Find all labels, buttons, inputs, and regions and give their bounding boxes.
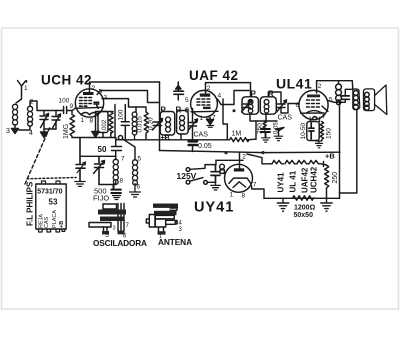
IF1 primary box bbox=[160, 112, 175, 136]
svg-text:UAF 42: UAF 42 bbox=[189, 68, 239, 83]
UAF42 diode bar bbox=[203, 107, 211, 109]
tuning capacitor VC1 bbox=[40, 111, 48, 130]
ant former body bbox=[155, 219, 165, 227]
UY41 filament bbox=[233, 182, 246, 188]
ground arrow below primary bbox=[12, 125, 19, 134]
block bottom tabs bbox=[39, 229, 65, 232]
svg-text:1: 1 bbox=[24, 85, 28, 92]
IF2 trimmer right bbox=[278, 104, 286, 108]
switch wire bbox=[207, 181, 215, 183]
svg-text:UY41: UY41 bbox=[277, 172, 286, 193]
IF1 trimmer left bbox=[154, 122, 162, 126]
svg-text:1MG: 1MG bbox=[63, 124, 70, 139]
coil bottom bar bbox=[99, 182, 116, 185]
switch lever bbox=[190, 178, 203, 182]
svg-text:50: 50 bbox=[98, 145, 107, 154]
ground right bottom bbox=[321, 198, 332, 211]
svg-text:4: 4 bbox=[218, 93, 222, 100]
osc trimmer arrow bbox=[94, 161, 105, 174]
anode top line to IF1 bbox=[91, 81, 160, 83]
resistor 0.20 drop bbox=[136, 107, 148, 140]
tuning capacitor VC2 bbox=[52, 111, 60, 130]
IF2 secondary coil bbox=[264, 100, 269, 113]
junction dot 1M riser bbox=[224, 151, 227, 154]
svg-text:53: 53 bbox=[49, 198, 58, 207]
grid trimmer top stub bbox=[192, 109, 194, 123]
bottom bus bbox=[264, 197, 340, 199]
RC bottoms to bus bbox=[103, 133, 111, 138]
osc coil L3 bbox=[132, 160, 137, 185]
cathode resistor 150 bbox=[320, 122, 323, 141]
gang dashed line steep bbox=[25, 127, 50, 184]
UY41 anode bar bbox=[234, 168, 244, 171]
svg-text:10-50: 10-50 bbox=[300, 122, 307, 139]
wire to UL41 grid bbox=[281, 104, 299, 114]
svg-text:UL41: UL41 bbox=[276, 76, 312, 92]
vertical feed x159.5 bbox=[159, 82, 161, 151]
pin8 wire to ground bbox=[95, 112, 97, 132]
pin5 wire bbox=[328, 101, 341, 103]
junction dot pin4 riser bbox=[233, 109, 236, 112]
IF2 bottoms bar bbox=[250, 114, 277, 121]
bus wire y137.5 bbox=[72, 138, 230, 140]
pin7 wire to bus bbox=[252, 186, 265, 199]
secondary coil bbox=[353, 91, 358, 110]
resistor 250 right bbox=[325, 165, 329, 198]
svg-text:7: 7 bbox=[121, 156, 125, 163]
osc former flange 2 bbox=[100, 217, 125, 222]
UL41 grid chord bbox=[301, 112, 325, 114]
cathode ground bbox=[316, 141, 323, 148]
pin 3 stub bbox=[102, 98, 107, 100]
svg-text:2: 2 bbox=[318, 83, 322, 90]
svg-text:8: 8 bbox=[90, 118, 94, 125]
svg-text:ANTENA: ANTENA bbox=[158, 237, 192, 247]
svg-text:P: P bbox=[161, 106, 167, 115]
UAF42 anode line bbox=[206, 83, 251, 97]
diagonal to coil2 bbox=[122, 139, 135, 160]
junction loop on bus bbox=[118, 136, 122, 140]
resistor 1MG vertical bbox=[70, 111, 75, 138]
ground under det cap bbox=[262, 138, 270, 142]
resistor 1200 bbox=[293, 196, 314, 200]
ground left bottom bbox=[277, 198, 288, 211]
IF1 secondary coil bbox=[180, 116, 185, 131]
block top tabs bbox=[42, 181, 61, 184]
UCH42 anode bar bbox=[83, 92, 94, 95]
heater UL41 bbox=[285, 160, 297, 163]
coil L3 ground bbox=[130, 184, 141, 198]
IF2 trimmer left bbox=[243, 104, 251, 108]
antenna Y1 bbox=[18, 81, 27, 96]
grid cap 5 plates bbox=[174, 91, 184, 94]
tone cap bottom stub bbox=[340, 99, 346, 102]
speaker horn bbox=[375, 85, 387, 115]
IF1 primary coil bbox=[166, 117, 171, 132]
UAF42 ground bars bbox=[207, 126, 214, 128]
osc former flange 1 bbox=[98, 210, 126, 215]
B+ vertical right bbox=[339, 102, 341, 193]
svg-text:3: 3 bbox=[113, 226, 116, 232]
UY41 tube envelope bbox=[225, 164, 253, 192]
svg-text:UCH 42: UCH 42 bbox=[41, 73, 92, 88]
svg-text:0.015: 0.015 bbox=[137, 116, 144, 133]
svg-text:1: 1 bbox=[200, 115, 204, 122]
svg-text:UAF42: UAF42 bbox=[301, 167, 310, 193]
mains terminal top bbox=[186, 168, 190, 172]
svg-text:8: 8 bbox=[120, 178, 124, 185]
250 branch vertical bbox=[255, 121, 257, 139]
resistor beside .002 bbox=[109, 112, 113, 134]
svg-text:1: 1 bbox=[81, 117, 85, 124]
svg-text:3: 3 bbox=[6, 128, 10, 135]
svg-text:5: 5 bbox=[185, 97, 189, 104]
ground arrow below VC1 bbox=[41, 129, 48, 138]
antenna coil primary winding bbox=[12, 104, 17, 125]
stub to bottom bus bbox=[339, 193, 341, 198]
1M riser bbox=[223, 99, 227, 140]
cathode cap bbox=[309, 123, 314, 139]
filter cap 0.1 bbox=[211, 165, 220, 183]
IF1 trimmer left arrow bbox=[153, 119, 163, 131]
svg-text:5731/70: 5731/70 bbox=[37, 189, 62, 196]
ant former tab right bbox=[170, 208, 177, 210]
svg-text:7: 7 bbox=[322, 114, 326, 121]
svg-text:2: 2 bbox=[207, 85, 211, 92]
svg-text:+B: +B bbox=[325, 152, 335, 161]
UL41 anode bar bbox=[307, 95, 320, 98]
heater UCH42 bbox=[309, 160, 321, 163]
UAF42 grid chord bbox=[191, 110, 218, 113]
tube UL41 envelope bbox=[299, 90, 328, 119]
ant former top bar bbox=[153, 204, 178, 208]
block body bbox=[36, 184, 66, 229]
IF1 secondary box bbox=[177, 111, 189, 135]
tube UCH42 envelope bbox=[75, 89, 103, 117]
svg-text:UL 41: UL 41 bbox=[289, 170, 298, 192]
wire antenna to coil bbox=[16, 95, 22, 103]
tone cap plates bbox=[342, 96, 350, 99]
mains wire top bbox=[190, 160, 216, 169]
osc former top cap bbox=[103, 204, 117, 209]
heater UAF42 bbox=[297, 160, 309, 163]
svg-text:2: 2 bbox=[242, 154, 246, 161]
UCH42 cathode bbox=[81, 113, 98, 115]
speaker return vertical bbox=[340, 111, 357, 194]
ground arrow branch bbox=[274, 136, 282, 140]
cap 0.05 bbox=[189, 141, 197, 145]
UAF42 cathode ground arrow bbox=[207, 117, 214, 125]
IF1 box bottom stubs bbox=[166, 134, 182, 140]
cathode box UL41 bbox=[307, 122, 319, 141]
svg-text:4: 4 bbox=[29, 130, 33, 137]
UL41 pin2 riser bbox=[316, 81, 318, 93]
svg-text:8: 8 bbox=[242, 193, 246, 200]
cap detection bbox=[261, 128, 270, 137]
padder cap 50 bbox=[112, 140, 122, 159]
IF2 primary coil bbox=[248, 100, 253, 113]
IF1 grid trimmer bbox=[189, 123, 197, 127]
resistor 1M bbox=[230, 138, 257, 142]
resistor box .002 bbox=[98, 112, 108, 133]
UAF42 grid rows bbox=[197, 99, 210, 105]
oscillator coil L2 bbox=[113, 159, 118, 184]
UL41 cathode bbox=[307, 111, 322, 119]
heater UY41 bbox=[272, 160, 284, 163]
svg-text:CAS: CAS bbox=[194, 132, 209, 139]
heater feed wire bbox=[247, 154, 272, 164]
antenna coil secondary winding bbox=[27, 106, 32, 126]
fuse marker square bbox=[220, 170, 224, 174]
svg-text:CAS: CAS bbox=[278, 115, 293, 122]
ground under 500 bbox=[113, 196, 121, 200]
wire VC bottoms joined bbox=[44, 128, 56, 130]
OT primary coil bbox=[336, 81, 342, 105]
0.05 to bus bbox=[192, 146, 194, 152]
osc trimmer cap bbox=[95, 156, 104, 184]
ant former left cross bbox=[146, 215, 155, 228]
UL41 grid rows bbox=[307, 100, 320, 107]
wire trimmer to 0.05 bbox=[192, 126, 194, 141]
svg-text:1200Ω: 1200Ω bbox=[294, 205, 316, 212]
svg-text:50x50: 50x50 bbox=[294, 212, 314, 219]
ground under 0.1 cap bbox=[211, 182, 220, 190]
padder trimmer cap1 bbox=[76, 138, 85, 181]
VC1 arrow bbox=[41, 114, 49, 128]
IF2 secondary top wire bbox=[268, 92, 281, 104]
svg-text:0.05: 0.05 bbox=[198, 143, 212, 150]
coupling cap 100 bbox=[121, 105, 129, 139]
osc section top bar bbox=[80, 155, 116, 157]
UY41 cathode hood bbox=[229, 178, 251, 183]
tie bar tube to RC bbox=[96, 111, 114, 113]
svg-text:1: 1 bbox=[230, 192, 234, 199]
UY41 pin2 riser bbox=[239, 153, 241, 169]
ant former bar2 bbox=[154, 211, 177, 215]
svg-text:6: 6 bbox=[296, 102, 300, 109]
screen line bbox=[101, 91, 160, 103]
arrow branch stub bbox=[278, 130, 280, 136]
UAF42 anode bar bbox=[200, 94, 210, 97]
speaker body bbox=[364, 89, 375, 111]
speaker voice coil bbox=[364, 92, 369, 110]
dotted coupling line horizontal bbox=[27, 178, 76, 179]
svg-text:UCH42: UCH42 bbox=[310, 166, 319, 193]
oscillator anode line bbox=[107, 99, 136, 112]
svg-text:CAS: CAS bbox=[44, 216, 50, 228]
UCH42 grid chord bbox=[75, 107, 104, 108]
fuse marker circle bbox=[220, 164, 225, 169]
capacitor 100 (series grid cap) bbox=[62, 107, 74, 114]
UL41 screen tab bbox=[322, 106, 328, 112]
ground under cap1 bbox=[75, 182, 85, 187]
ant former right arm bbox=[166, 220, 176, 224]
svg-text:F.L PHILIPS: F.L PHILIPS bbox=[26, 181, 35, 226]
ground arrow pin8 bbox=[92, 132, 99, 138]
pin7 stub to cathode box bbox=[319, 118, 321, 122]
osc former left arm bbox=[89, 223, 111, 228]
svg-text:3: 3 bbox=[179, 227, 183, 233]
IF2 primary box bbox=[242, 97, 258, 114]
svg-text:OSCILADORA: OSCILADORA bbox=[93, 238, 147, 248]
pin 5 stub bbox=[97, 91, 101, 95]
bus +B rail y152 bbox=[160, 151, 341, 153]
volume arrow bbox=[276, 128, 285, 131]
svg-text:6: 6 bbox=[137, 184, 141, 191]
IF2 trimmer left arrow bbox=[242, 100, 252, 112]
UAF42 pin2 riser bbox=[205, 83, 207, 94]
coil 0.015 bbox=[132, 112, 137, 140]
ant former foot bbox=[158, 231, 166, 234]
AC line to anode bbox=[216, 159, 243, 161]
heater to dropper bbox=[321, 164, 327, 165]
svg-text:7: 7 bbox=[253, 182, 257, 189]
svg-text:5: 5 bbox=[138, 156, 142, 163]
IF1 grid trimmer arrow bbox=[188, 119, 198, 131]
junction dot UY41 bbox=[261, 151, 264, 154]
svg-text:1M: 1M bbox=[232, 131, 242, 138]
grid cap 5 marker bbox=[176, 83, 181, 89]
VC2 arrow bbox=[53, 114, 61, 128]
grid cap 5 stub bbox=[177, 82, 179, 100]
svg-text:+B: +B bbox=[59, 221, 65, 228]
svg-text:7: 7 bbox=[126, 223, 130, 229]
osc former leg 1 bbox=[104, 227, 108, 232]
svg-text:2: 2 bbox=[92, 85, 96, 92]
svg-text:100: 100 bbox=[59, 98, 70, 105]
ant former bar3 bbox=[155, 215, 174, 218]
svg-text:100: 100 bbox=[118, 109, 125, 120]
svg-text:4: 4 bbox=[179, 221, 183, 227]
speaker transformer secondary box bbox=[353, 89, 360, 110]
wire node2 to tuning section bbox=[30, 101, 62, 111]
anode top line UL41 bbox=[317, 81, 353, 96]
switch terminal b bbox=[204, 181, 208, 185]
vertical x115 bbox=[114, 105, 116, 139]
svg-text:150: 150 bbox=[326, 128, 333, 139]
svg-text:PLACA: PLACA bbox=[52, 210, 58, 228]
osc former foot 1 bbox=[102, 231, 109, 234]
tube UAF42 envelope bbox=[191, 90, 218, 117]
pin 4 screen wire bbox=[218, 91, 250, 105]
svg-text:250: 250 bbox=[332, 172, 339, 184]
UCH42 grid rows bbox=[80, 98, 92, 107]
cap 500 fijo bbox=[111, 185, 121, 194]
wire coil bottom to ground bbox=[19, 126, 30, 130]
pin2 riser UCH42 bbox=[89, 82, 91, 92]
IF2 trimmer right arrow bbox=[277, 100, 287, 112]
switch terminal a bbox=[186, 180, 190, 184]
resistor small IF2 bbox=[263, 121, 266, 130]
svg-text:UY41: UY41 bbox=[194, 200, 234, 216]
cap1 arrow bbox=[77, 162, 86, 173]
svg-text:9: 9 bbox=[70, 103, 74, 110]
svg-text:.002: .002 bbox=[102, 119, 108, 131]
svg-text:FIJO: FIJO bbox=[93, 194, 109, 203]
ant former legs bbox=[159, 227, 164, 232]
ant former arm nub bbox=[175, 220, 178, 225]
IF2 secondary box bbox=[260, 97, 276, 114]
svg-text:5: 5 bbox=[99, 89, 103, 96]
osc former foot 2 bbox=[118, 231, 125, 235]
osc former core rods bbox=[118, 204, 124, 232]
dropper tick bbox=[323, 162, 325, 167]
UCH42 hexode anode tab bbox=[94, 102, 99, 108]
svg-text:6: 6 bbox=[186, 107, 190, 114]
